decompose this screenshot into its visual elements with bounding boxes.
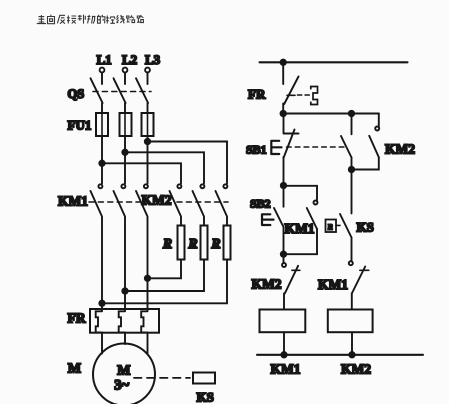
svg-text:R: R bbox=[162, 236, 172, 251]
svg-text:FR: FR bbox=[68, 311, 86, 326]
svg-text:L2: L2 bbox=[122, 52, 137, 67]
node E (SB2 branch bottom) bbox=[281, 252, 286, 257]
node C bbox=[349, 167, 354, 172]
wire L3 to KM2 pole3 bbox=[148, 142, 228, 184]
svg-text:KM2: KM2 bbox=[341, 362, 371, 377]
resistor R1 bbox=[162, 226, 185, 260]
dashed link motor to KS bbox=[134, 377, 190, 379]
terminal L1 bbox=[97, 52, 112, 72]
svg-text:KM1: KM1 bbox=[271, 362, 301, 377]
switch QS bbox=[68, 72, 152, 113]
svg-text:KM1: KM1 bbox=[58, 194, 88, 209]
wire L2 fuse to KM1 bbox=[124, 136, 126, 184]
node rail-FR bbox=[281, 60, 286, 65]
svg-text:QS: QS bbox=[68, 87, 85, 101]
svg-text:FU1: FU1 bbox=[68, 118, 92, 133]
fuse FU1 (3 fuses) bbox=[68, 113, 154, 136]
terminal L2 bbox=[122, 52, 137, 72]
wire KS to KM1 interlock bbox=[351, 238, 353, 262]
svg-text:R: R bbox=[211, 236, 221, 251]
coil KM1 bbox=[260, 310, 306, 355]
resistor R2 bbox=[188, 226, 208, 260]
wire L2 to KM2 pole2 bbox=[125, 152, 204, 183]
svg-text:KM2: KM2 bbox=[385, 142, 415, 157]
svg-text:KS: KS bbox=[357, 220, 374, 235]
svg-text:M: M bbox=[117, 364, 130, 379]
svg-text:n: n bbox=[328, 222, 333, 233]
control bottom rail bbox=[257, 354, 423, 356]
title 单向反接制动的控制线路 (vector strokes) bbox=[37, 15, 144, 24]
node KM2 coil-rail bbox=[349, 352, 354, 357]
node R2-line2 bbox=[122, 288, 127, 293]
motor M bbox=[68, 344, 155, 404]
pushbutton SB2 (start, NO) bbox=[250, 186, 284, 255]
control top rail bbox=[260, 61, 408, 63]
contactor KM1 main contacts bbox=[58, 184, 148, 309]
svg-text:M: M bbox=[68, 362, 81, 377]
thermal relay FR heaters bbox=[68, 309, 160, 333]
contactor contact KM1 self-latch (NO) bbox=[284, 186, 318, 254]
node L2 branch bbox=[122, 150, 127, 155]
thermal contact FR (NC) bbox=[248, 62, 318, 113]
svg-text:L3: L3 bbox=[145, 52, 161, 67]
wire FR to motor (3) bbox=[102, 333, 148, 354]
contactor KM2 main contacts bbox=[142, 184, 229, 225]
svg-text:3~: 3~ bbox=[114, 378, 129, 394]
wire R3 to line1 bbox=[102, 260, 227, 304]
svg-text:KM1: KM1 bbox=[318, 277, 348, 292]
svg-text:KM2: KM2 bbox=[142, 193, 172, 208]
speed relay contact KS bbox=[326, 214, 374, 238]
svg-text:KM1: KM1 bbox=[285, 221, 315, 236]
node B bbox=[349, 111, 354, 116]
resistor R3 bbox=[211, 226, 231, 260]
node D (SB2 branch top) bbox=[281, 183, 286, 188]
node A bbox=[281, 111, 286, 116]
wire node row y=113.5 bbox=[283, 113, 379, 115]
wire L3 fuse to KM1 bbox=[147, 136, 149, 184]
coil KM2 bbox=[328, 310, 373, 355]
svg-text:KM2: KM2 bbox=[252, 277, 282, 292]
speed relay KS bbox=[193, 373, 215, 404]
node KM1 coil-rail bbox=[281, 352, 286, 357]
node R3-line1 bbox=[99, 301, 104, 306]
contactor contact KM2 self-latch (NO) bbox=[352, 114, 416, 170]
svg-text:KS: KS bbox=[197, 390, 214, 404]
wire L1 fuse to KM1 bbox=[101, 136, 103, 184]
contactor contact KM1 interlock (NC) bbox=[318, 261, 369, 309]
svg-text:SB1: SB1 bbox=[246, 143, 267, 157]
node L3 branch bbox=[145, 139, 150, 144]
svg-text:FR: FR bbox=[248, 87, 266, 102]
contactor contact KM2 interlock (NC) bbox=[252, 254, 300, 309]
wire L1 to KM2 pole1 bbox=[102, 163, 181, 183]
svg-text:L1: L1 bbox=[97, 52, 112, 67]
pushbutton SB1 (stop, NC) bbox=[246, 114, 346, 186]
wire R1 to line3 bbox=[148, 260, 182, 279]
pushbutton SB1 linked NO contact bbox=[341, 114, 352, 170]
svg-text:SB2: SB2 bbox=[250, 197, 271, 211]
svg-text:R: R bbox=[188, 236, 198, 251]
wire R2 to line2 bbox=[125, 260, 204, 292]
node L1 branch bbox=[99, 161, 104, 166]
terminal L3 bbox=[145, 52, 161, 72]
node R1-line3 bbox=[145, 276, 150, 281]
wire node C to KS bbox=[351, 170, 353, 214]
